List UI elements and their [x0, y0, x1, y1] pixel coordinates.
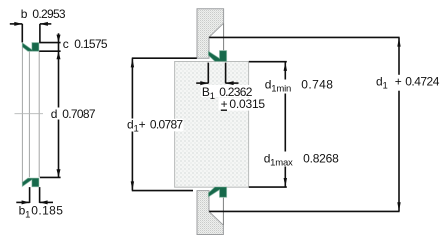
svg-text:d1min: d1min [265, 77, 291, 94]
svg-text:0.8268: 0.8268 [303, 151, 339, 165]
svg-text:0.185: 0.185 [31, 204, 63, 218]
svg-text:0.2953: 0.2953 [32, 7, 66, 21]
svg-text:b: b [21, 7, 28, 21]
svg-text:0.4724: 0.4724 [405, 75, 440, 89]
svg-text:b1: b1 [19, 204, 31, 221]
svg-text:c: c [63, 37, 69, 51]
svg-text:d: d [51, 107, 57, 121]
svg-text:0.1575: 0.1575 [74, 37, 108, 51]
svg-text:0.748: 0.748 [301, 77, 333, 91]
svg-text:0.7087: 0.7087 [62, 107, 96, 121]
svg-text:+: + [221, 97, 228, 111]
svg-text:0.0787: 0.0787 [150, 117, 184, 131]
svg-text:0.0315: 0.0315 [229, 97, 265, 111]
svg-text:d1 +: d1 + [376, 75, 402, 92]
svg-text:d1max: d1max [264, 151, 293, 168]
